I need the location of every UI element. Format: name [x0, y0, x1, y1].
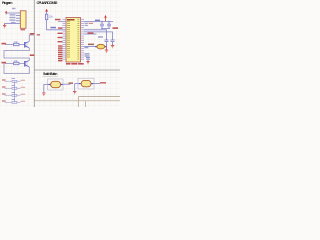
U1 inner pin numbers right — [77, 19, 79, 60]
wire R2 to Q2 base — [19, 63, 24, 65]
resistor R3 (vertical) — [45, 14, 47, 20]
U1 inner title text — [67, 19, 75, 21]
wire EN to RC — [84, 30, 107, 40]
capacitor C3 — [105, 40, 109, 47]
net label right of divider — [37, 34, 40, 35]
junction dots on 3V3 rail — [101, 21, 102, 22]
J1 designator below — [21, 29, 26, 30]
U1 value text below — [66, 63, 84, 65]
transistor circuit Q2 : RTS label — [2, 62, 7, 64]
button SW3 — [79, 80, 93, 86]
ground under C3 — [105, 47, 108, 53]
svg-text:Switch Button: Switch Button — [43, 72, 58, 76]
vertical bus connecting rows — [14, 81, 16, 102]
wire left of SW3 down to gnd — [75, 84, 79, 92]
wire IO0 to RC2 — [84, 32, 113, 40]
Q2 emitter loop to RTS — [4, 64, 29, 74]
capacitor C1 — [100, 21, 104, 28]
button SW2 — [49, 81, 63, 87]
EN net label blue — [51, 27, 57, 29]
connector pin net labels — [10, 8, 16, 23]
wire cap bottoms — [101, 28, 110, 30]
ground at J1 — [3, 23, 6, 27]
wire R3 down to EN wire — [47, 20, 66, 30]
capacitor C5 under right — [86, 57, 90, 61]
section divider horizontal right — [34, 69, 120, 71]
wire DTR to R1 — [5, 44, 14, 46]
resistor row 3 — [2, 93, 6, 94]
gnd label red right — [113, 27, 119, 29]
wire R1 to Q1 base — [19, 44, 24, 46]
capacitor C4 — [111, 40, 115, 45]
resistor R2 — [14, 62, 20, 64]
ground SW3 — [73, 92, 76, 94]
pull-up resistor on EN: VCC flag — [45, 9, 48, 13]
resistor row 2 — [2, 86, 6, 87]
U1 right pin stubs — [81, 19, 85, 59]
EN button wire left — [84, 46, 95, 48]
ground under C4 — [111, 45, 114, 48]
button SW3 bounding box — [78, 78, 94, 89]
svg-text:CPU/WROOM32: CPU/WROOM32 — [37, 0, 59, 5]
transistor Q1 — [24, 42, 29, 48]
power flag VCC at J1 pin1 — [5, 11, 16, 15]
switch button section: bounding box — [48, 79, 64, 90]
resistor row 4 — [2, 100, 6, 101]
ground SW2 — [42, 93, 45, 96]
svg-text:10k: 10k — [14, 59, 19, 63]
wire VCC to R3 — [46, 12, 48, 15]
svg-text:10k: 10k — [49, 15, 54, 19]
wire TXD0 pin — [84, 33, 97, 35]
ground under C5 — [86, 62, 89, 64]
resistor R1 — [14, 43, 20, 45]
left pin net labels red — [58, 33, 63, 62]
U1 left pin stubs — [63, 19, 67, 59]
capacitor C2 — [107, 21, 111, 28]
wire left of SW2 down to gnd — [44, 85, 49, 94]
3V3 rail right of U1 — [84, 20, 113, 22]
wire RTS to R2 — [5, 63, 14, 65]
Q1 collector wire up to net label — [29, 35, 33, 42]
wire right of SW3 with label — [93, 83, 100, 85]
wire J1 gnd pin — [5, 22, 16, 24]
transistor circuit Q1 : DTR label — [2, 43, 7, 45]
connector J1 pins — [16, 13, 20, 23]
blue label on rail — [95, 20, 100, 21]
blue labels right lower pins — [85, 47, 90, 57]
button SW1 (EN) — [95, 44, 107, 49]
Q1 emitter loop to Q2 — [4, 48, 29, 61]
svg-text:10k: 10k — [14, 40, 19, 44]
connector J1 body — [20, 11, 26, 29]
VCC flag on rail — [104, 15, 107, 22]
title block — [35, 97, 121, 108]
U1 inner pin names left — [67, 21, 70, 58]
net label at Q1 collector — [30, 33, 35, 35]
net label at Q2 collector — [30, 54, 35, 56]
section divider vertical — [33, 0, 35, 107]
svg-text:Program: Program — [2, 0, 13, 5]
EN pin label red — [58, 27, 63, 28]
wire right of SW2 with label — [63, 83, 71, 85]
resistor row 1 — [2, 79, 6, 80]
small labels right pins top — [85, 23, 88, 24]
transistor Q2 — [24, 61, 29, 67]
IC U1 ESP32-WROOM body — [66, 18, 81, 63]
wire into IC pin 3V3 top — [58, 20, 66, 22]
